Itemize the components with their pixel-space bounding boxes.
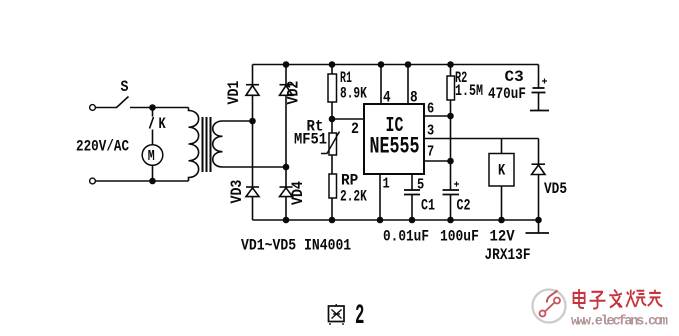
wire: R1/Rt/RP chain xyxy=(331,65,333,221)
wire: motor to bottom wire xyxy=(152,165,154,181)
diode VD5 xyxy=(532,139,568,221)
svg-text:MF51: MF51 xyxy=(294,132,327,149)
diode VD3 xyxy=(229,179,259,203)
junction node (switch/K) xyxy=(149,104,156,111)
svg-text:M: M xyxy=(148,148,155,165)
wire: switch to transformer primary xyxy=(130,107,189,109)
pin 7 xyxy=(424,144,451,161)
svg-text:5: 5 xyxy=(417,177,424,194)
junction node (motor/bottom wire) xyxy=(149,178,156,185)
wire: bridge right branch xyxy=(285,65,287,221)
wire: terminal to switch xyxy=(96,107,117,109)
capacitor C3 470uF xyxy=(488,65,547,111)
node: AC input terminal (bottom) xyxy=(90,178,96,184)
svg-text:VD4: VD4 xyxy=(290,181,307,205)
junction node (bottom rail / RP) xyxy=(329,217,336,224)
wire: bottom rail xyxy=(253,219,539,221)
label: VD1~VD5 IN4001 xyxy=(241,237,351,254)
junction node (R1/Rt/pin2) xyxy=(329,116,336,123)
resistor RP xyxy=(329,171,367,206)
caption: figure 2 xyxy=(329,300,365,332)
wire: top DC rail xyxy=(253,64,539,66)
svg-text:VD3: VD3 xyxy=(229,179,246,203)
svg-text:8.9K: 8.9K xyxy=(340,86,367,103)
watermark: elecfans logo xyxy=(533,290,566,323)
svg-text:K: K xyxy=(498,162,506,180)
svg-text:C3: C3 xyxy=(505,68,524,86)
pin 5 xyxy=(412,174,424,194)
diode VD4 xyxy=(280,181,308,205)
pin 1 xyxy=(380,174,390,220)
node: AC input terminal (top) xyxy=(90,105,96,111)
svg-text:8: 8 xyxy=(410,89,418,107)
IC U1 NE555 xyxy=(364,104,424,174)
diode VD2 xyxy=(280,81,303,105)
junction node (top rail / VD2 branch) xyxy=(283,61,290,68)
svg-text:VD1~VD5 IN4001: VD1~VD5 IN4001 xyxy=(241,237,351,254)
thermistor Rt MF51 xyxy=(294,117,340,155)
svg-text:0.01uF: 0.01uF xyxy=(383,228,429,246)
svg-text:VD2: VD2 xyxy=(286,81,303,105)
junction node (bottom rail / C1) xyxy=(409,217,416,224)
junction node (bottom rail / C2) xyxy=(447,217,454,224)
pin 2 xyxy=(332,119,364,138)
relay coil K xyxy=(485,139,531,265)
junction node (bottom rail / VD4 branch) xyxy=(283,217,290,224)
junction node (secondary bottom / right branch) xyxy=(283,164,290,171)
svg-text:www.elecfans.com: www.elecfans.com xyxy=(571,315,668,330)
svg-text:RP: RP xyxy=(341,171,358,190)
svg-text:C2: C2 xyxy=(457,197,471,215)
svg-text:NE555: NE555 xyxy=(370,134,420,161)
svg-text:VD5: VD5 xyxy=(544,181,567,199)
svg-text:6: 6 xyxy=(427,101,434,118)
motor M xyxy=(142,145,163,166)
watermark: red text dian zi fa shao you xyxy=(573,289,662,309)
resistor R1 xyxy=(328,69,367,104)
resistor R2 xyxy=(447,70,483,101)
pin 6 xyxy=(424,101,451,118)
svg-text:VD1: VD1 xyxy=(226,80,243,104)
junction node (bottom rail / VD5 / ground) xyxy=(535,217,542,224)
svg-text:7: 7 xyxy=(427,144,434,161)
svg-text:3: 3 xyxy=(427,123,434,140)
junction node (top rail / pin4) xyxy=(378,61,385,68)
relay contact K xyxy=(150,108,167,145)
svg-text:1.5M: 1.5M xyxy=(455,82,483,100)
svg-text:2: 2 xyxy=(351,121,359,138)
svg-text:220V/AC: 220V/AC xyxy=(76,138,129,156)
svg-text:470uF: 470uF xyxy=(488,86,526,104)
junction node (R2 / pin6) xyxy=(447,113,454,120)
ground (C3) xyxy=(530,110,549,112)
transformer T core xyxy=(203,117,211,172)
wire: bottom AC wire xyxy=(96,180,189,182)
capacitor C2 100uF xyxy=(440,182,479,246)
wire: bridge left branch xyxy=(252,65,254,221)
svg-text:12V: 12V xyxy=(490,228,515,246)
svg-text:2: 2 xyxy=(355,300,364,332)
transformer T primary winding xyxy=(189,108,199,182)
label: 220V/AC xyxy=(76,138,129,156)
transformer T secondary winding xyxy=(213,121,286,167)
pin 8 xyxy=(408,65,418,108)
junction node (top rail / R1) xyxy=(329,61,336,68)
junction node (top rail / pin8) xyxy=(405,61,412,68)
svg-text:JRX13F: JRX13F xyxy=(485,247,531,265)
diode VD1 xyxy=(226,80,259,104)
svg-text:1: 1 xyxy=(383,176,390,193)
capacitor C1 0.01uF xyxy=(383,190,435,246)
pin 4 xyxy=(381,65,391,108)
junction node (bottom rail / relay K) xyxy=(498,217,505,224)
svg-text:100uF: 100uF xyxy=(440,228,479,246)
svg-text:4: 4 xyxy=(383,89,391,107)
pin 3 xyxy=(424,123,539,140)
svg-text:2.2K: 2.2K xyxy=(340,189,367,206)
switch S xyxy=(116,79,129,108)
ground (main) xyxy=(526,220,550,233)
svg-text:C1: C1 xyxy=(421,197,435,215)
junction node (pin7 / C2) xyxy=(447,158,454,165)
svg-text:K: K xyxy=(159,116,167,134)
junction node (top rail / R2) xyxy=(447,61,454,68)
svg-text:S: S xyxy=(121,79,129,96)
svg-text:R1: R1 xyxy=(340,69,352,87)
wire: R2/C2 vertical line xyxy=(450,65,452,221)
junction node (secondary top / left branch) xyxy=(249,118,256,125)
junction node (bottom rail / pin1) xyxy=(377,217,384,224)
